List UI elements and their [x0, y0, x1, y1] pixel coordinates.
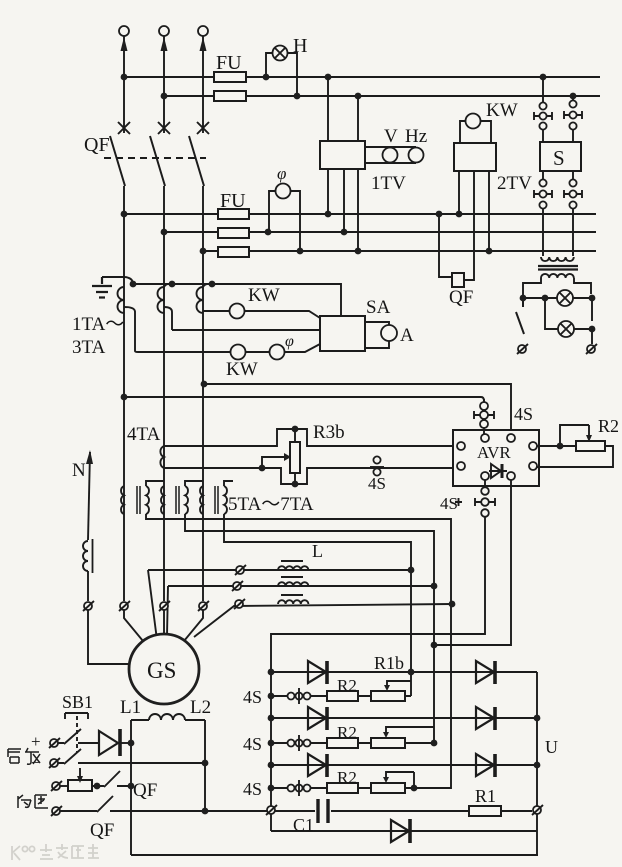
- svg-text:S: S: [553, 146, 565, 170]
- svg-text:4S: 4S: [243, 687, 262, 707]
- svg-text:R1b: R1b: [374, 653, 404, 673]
- svg-text:4S: 4S: [440, 494, 458, 513]
- svg-text:4S: 4S: [243, 779, 262, 799]
- svg-text:U: U: [545, 737, 558, 757]
- svg-text:4S: 4S: [368, 474, 386, 493]
- svg-text:L: L: [312, 541, 323, 561]
- svg-text:L1: L1: [120, 697, 141, 718]
- svg-text:V: V: [384, 126, 398, 147]
- svg-text:R2: R2: [337, 676, 357, 695]
- svg-text:1TA〜: 1TA〜: [72, 314, 124, 335]
- svg-text:4S: 4S: [514, 404, 533, 424]
- svg-text:φ: φ: [285, 333, 294, 350]
- svg-text:KW: KW: [486, 100, 518, 121]
- svg-text:4S: 4S: [243, 734, 262, 754]
- svg-text:N: N: [72, 460, 86, 481]
- svg-text:KW: KW: [226, 359, 258, 380]
- svg-text:SB1: SB1: [62, 692, 93, 712]
- svg-text:GS: GS: [147, 658, 176, 683]
- svg-text:H: H: [293, 35, 307, 57]
- svg-text:+: +: [31, 732, 41, 751]
- svg-text:KW: KW: [248, 285, 280, 306]
- svg-text:R2: R2: [337, 768, 357, 787]
- svg-text:QF: QF: [133, 780, 157, 801]
- svg-text:5TA〜7TA: 5TA〜7TA: [228, 494, 314, 515]
- svg-text:QF: QF: [90, 820, 114, 841]
- svg-text:3TA: 3TA: [72, 337, 106, 358]
- svg-text:4TA: 4TA: [127, 424, 161, 445]
- svg-text:AVR: AVR: [477, 443, 511, 462]
- svg-text:R3b: R3b: [313, 422, 345, 443]
- svg-text:R2: R2: [337, 723, 357, 742]
- svg-text:A: A: [400, 325, 414, 346]
- svg-text:Hz: Hz: [405, 126, 427, 147]
- svg-text:R2: R2: [598, 416, 619, 436]
- svg-text:C1: C1: [293, 815, 314, 835]
- svg-text:FU: FU: [216, 52, 242, 74]
- svg-text:QF: QF: [449, 287, 473, 308]
- svg-text:φ: φ: [277, 164, 286, 183]
- svg-text:2TV: 2TV: [497, 173, 532, 194]
- svg-text:SA: SA: [366, 297, 391, 318]
- svg-text:L2: L2: [190, 697, 211, 718]
- svg-text:R1: R1: [475, 786, 496, 806]
- svg-text:1TV: 1TV: [371, 173, 406, 194]
- svg-text:QF: QF: [84, 134, 110, 156]
- svg-text:FU: FU: [220, 190, 246, 212]
